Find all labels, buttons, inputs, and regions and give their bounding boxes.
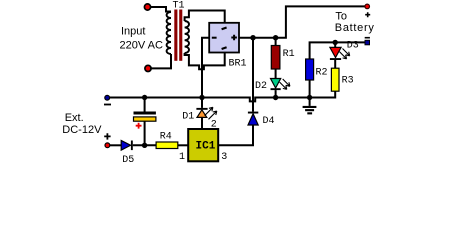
label R4 bbox=[160, 131, 172, 142]
ground symbol bbox=[303, 98, 317, 115]
junction dot R1 top bbox=[273, 35, 278, 40]
svg-text:BR1: BR1 bbox=[229, 59, 247, 70]
svg-text:Input: Input bbox=[121, 26, 145, 38]
wire secondary top to BR1 top bbox=[185, 11, 225, 23]
wire BR1 minus (left) down to ground rail bbox=[202, 38, 209, 98]
svg-text:IC1: IC1 bbox=[196, 140, 216, 152]
svg-text:To: To bbox=[335, 11, 347, 23]
resistor R1 bbox=[271, 38, 280, 79]
transformer T1 secondary winding bbox=[185, 21, 189, 53]
LED D3 (red) bbox=[330, 42, 350, 68]
battery + terminal (red) bbox=[365, 4, 370, 9]
ext - mark bbox=[104, 104, 111, 106]
LED D1 (orange) bbox=[196, 98, 216, 130]
resistor R2 bbox=[306, 59, 314, 98]
svg-text:R2: R2 bbox=[316, 68, 328, 79]
wire battery - to R2 bbox=[310, 42, 365, 59]
battery + mark bbox=[365, 12, 370, 17]
junction dot D2 bottom bbox=[273, 95, 278, 100]
junction dot D3 branch bbox=[333, 40, 338, 45]
ext + mark bbox=[104, 133, 110, 139]
transformer T1 core bbox=[174, 10, 182, 61]
svg-text:D2: D2 bbox=[255, 81, 267, 92]
junction dot D1 top bbox=[199, 95, 204, 100]
label To Battery bbox=[335, 11, 375, 35]
wire secondary bottom to BR1 bottom (with hop) bbox=[185, 53, 225, 70]
diode D4 (blue) bbox=[218, 112, 258, 146]
svg-text:R3: R3 bbox=[342, 75, 354, 86]
label D2 bbox=[255, 81, 267, 92]
input terminal bottom (red) bbox=[145, 65, 151, 71]
ground rail (with hop over D4 wire) bbox=[107, 91, 335, 101]
svg-text:DC-12V: DC-12V bbox=[62, 124, 102, 136]
label R3 bbox=[342, 75, 354, 86]
label R1 bbox=[283, 49, 295, 60]
svg-text:1: 1 bbox=[179, 152, 185, 163]
resistor R3 bbox=[331, 68, 339, 91]
wire D4 branch vertical bbox=[252, 38, 254, 112]
svg-text:220V AC: 220V AC bbox=[120, 40, 163, 52]
junction dot D4 branch bbox=[250, 35, 255, 40]
wire ext+ to D5 bbox=[110, 144, 121, 146]
LED D2 (green) bbox=[271, 79, 290, 98]
label D1 bbox=[182, 112, 194, 123]
battery - mark bbox=[365, 37, 370, 39]
junction dot ground bbox=[307, 95, 312, 100]
capacitor C1 (electrolytic) bbox=[134, 98, 156, 146]
svg-text:Ext.: Ext. bbox=[65, 112, 84, 124]
bridge rectifier BR1 bbox=[209, 23, 239, 53]
wire BR1 plus (right) rail to battery + bbox=[239, 6, 366, 37]
wire input top to primary bbox=[150, 7, 171, 12]
label pin 1 bbox=[179, 152, 185, 163]
label Input 220V AC bbox=[120, 26, 163, 52]
junction dot cap top bbox=[142, 95, 147, 100]
label D5 bbox=[122, 155, 134, 166]
battery - terminal (blue) bbox=[365, 40, 370, 45]
label T1 bbox=[173, 1, 185, 12]
label pin 3 bbox=[221, 152, 227, 163]
svg-text:D5: D5 bbox=[122, 155, 134, 165]
label BR1 bbox=[229, 59, 247, 70]
ext terminal plus (red) bbox=[105, 143, 110, 148]
ext terminal minus (blue) bbox=[105, 95, 110, 100]
svg-text:D4: D4 bbox=[263, 116, 275, 127]
svg-text:R4: R4 bbox=[160, 131, 172, 142]
svg-text:Battery: Battery bbox=[335, 22, 375, 34]
svg-text:D3: D3 bbox=[347, 41, 359, 52]
svg-text:D1: D1 bbox=[182, 112, 194, 123]
input terminal top (red) bbox=[144, 4, 150, 10]
resistor R4 bbox=[156, 142, 178, 149]
label Ext. DC-12V bbox=[62, 112, 102, 136]
junction dot cap bottom bbox=[142, 143, 147, 148]
wire D5 to R4 bbox=[133, 144, 156, 146]
svg-text:T1: T1 bbox=[173, 1, 185, 12]
label D3 bbox=[347, 41, 359, 52]
diode D5 (blue) bbox=[121, 141, 133, 151]
label pin 2 bbox=[211, 119, 217, 130]
svg-text:R1: R1 bbox=[283, 49, 295, 60]
wire input bottom to primary bbox=[150, 54, 171, 68]
label R2 bbox=[316, 68, 328, 79]
wire R4 to IC1 pin1 bbox=[178, 144, 188, 146]
svg-text:3: 3 bbox=[221, 152, 227, 163]
label D4 bbox=[263, 116, 275, 127]
IC1 bbox=[188, 129, 218, 161]
transformer T1 primary winding bbox=[167, 12, 171, 54]
